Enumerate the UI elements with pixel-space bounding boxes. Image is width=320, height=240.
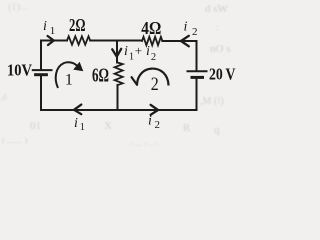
wire: middle branch upper	[116, 41, 118, 63]
svg-text:nO s: nO s	[210, 43, 230, 55]
svg-text:- .... - .. -: - .... - .. -	[130, 139, 158, 148]
svg-text:q: q	[214, 124, 220, 136]
faint blob top-left	[8, 2, 27, 13]
arrow i2 top (chevron pointing left)	[181, 36, 189, 47]
arrow i1 bottom (chevron pointing left)	[74, 105, 81, 115]
svg-text:R: R	[183, 122, 191, 134]
svg-text:2: 2	[155, 119, 161, 131]
svg-text:01: 01	[30, 120, 41, 132]
arrow i1 top (chevron pointing right)	[48, 36, 54, 45]
svg-text:6Ω: 6Ω	[92, 65, 109, 87]
svg-text:.d: .d	[0, 92, 7, 102]
loop arrow 1 (clockwise arc)	[56, 62, 84, 88]
wire: left side lower	[40, 76, 42, 110]
svg-text:1: 1	[129, 52, 134, 63]
svg-text:10V: 10V	[7, 61, 32, 80]
svg-text:(1):..: (1):..	[8, 2, 27, 13]
svg-text::: :	[216, 22, 219, 32]
svg-text:,M (!): ,M (!)	[200, 96, 224, 107]
wire: left side upper	[40, 41, 42, 70]
svg-text:d sW: d sW	[205, 3, 229, 15]
faint marks left edge	[0, 92, 7, 102]
svg-text:1: 1	[50, 25, 56, 37]
svg-text:1: 1	[80, 122, 85, 133]
faint bleed-through text top-right	[205, 3, 230, 55]
arrow i1+i2 middle (chevron pointing down)	[112, 49, 121, 57]
battery V1 long plate (10V +)	[33, 69, 52, 71]
svg-text:i: i	[148, 114, 152, 129]
svg-text:+: +	[135, 43, 142, 58]
wire: top side, left segment	[41, 40, 67, 42]
arrow i2 bottom (chevron pointing right)	[151, 105, 158, 115]
wire: right side upper	[196, 41, 198, 70]
battery V2 short plate (20V -)	[192, 76, 203, 79]
faint bleed-through text bottom area	[2, 120, 220, 148]
wire: middle branch lower	[117, 85, 119, 110]
resistor R2 4-ohm zigzag	[142, 37, 162, 45]
svg-text:i: i	[184, 20, 188, 35]
wire: top middle segment	[90, 40, 142, 42]
battery V2 long plate (20V +)	[188, 70, 207, 72]
wire: top right segment	[162, 40, 196, 42]
resistor R3 6-ohm zigzag	[115, 63, 123, 85]
resistor R1 2-ohm zigzag	[67, 36, 90, 44]
svg-text:4Ω: 4Ω	[141, 18, 161, 38]
faint bleed-through text right-middle	[200, 96, 224, 107]
battery V1 short plate (10V -)	[36, 73, 47, 76]
svg-text:2: 2	[151, 75, 159, 95]
loop arrow 2 barb	[132, 77, 137, 85]
svg-text:( ........ ): ( ........ )	[2, 136, 28, 145]
wire: right side lower	[196, 79, 198, 110]
loop arrow 2 (counter-clockwise arc)	[132, 69, 169, 86]
wire: bottom side	[41, 109, 197, 111]
svg-text:2Ω: 2Ω	[69, 15, 86, 35]
svg-text:i: i	[43, 19, 47, 34]
svg-text:2: 2	[192, 26, 198, 38]
svg-text:i: i	[146, 44, 150, 59]
svg-text:X: X	[104, 120, 112, 132]
svg-text:2: 2	[151, 52, 156, 63]
svg-text:1: 1	[65, 72, 73, 89]
svg-text:i: i	[124, 44, 128, 59]
svg-text:i: i	[74, 116, 78, 131]
svg-text:20 V: 20 V	[209, 65, 236, 84]
